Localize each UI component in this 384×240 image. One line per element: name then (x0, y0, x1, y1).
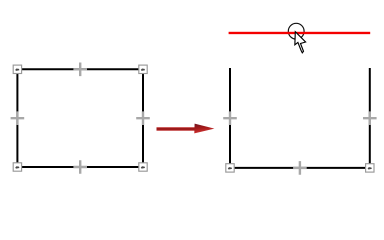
node: midpoint plus handle right (136, 111, 150, 125)
node: corner handle bottom-right (139, 163, 147, 171)
node: right shape midpoint plus right (363, 111, 377, 125)
circle selection marker (288, 23, 304, 39)
node: midpoint plus handle top (73, 63, 87, 77)
wire: left rectangle left edge (16, 69, 18, 167)
node: right shape corner handle bottom-right (366, 164, 374, 172)
mouse cursor (295, 32, 306, 53)
node: right shape midpoint plus left (223, 111, 237, 125)
wire: left rectangle top edge (17, 68, 143, 70)
wire: right shape left edge (229, 68, 231, 168)
node: midpoint plus handle left (11, 111, 25, 125)
node: corner handle top-right (139, 65, 147, 73)
arrow head (194, 124, 214, 134)
node: right shape midpoint plus bottom (293, 161, 307, 175)
wire: left rectangle right edge (142, 69, 144, 167)
node: corner handle bottom-left (13, 163, 21, 171)
red line (deleted segment) (229, 32, 371, 34)
node: right shape corner handle bottom-left (226, 164, 234, 172)
wire: right shape right edge (369, 68, 371, 168)
wire: right shape bottom edge (230, 167, 370, 169)
wire: left rectangle bottom edge (17, 166, 143, 168)
node: corner handle top-left (13, 65, 21, 73)
node: midpoint plus handle bottom (73, 160, 87, 174)
arrow shaft (157, 127, 197, 131)
